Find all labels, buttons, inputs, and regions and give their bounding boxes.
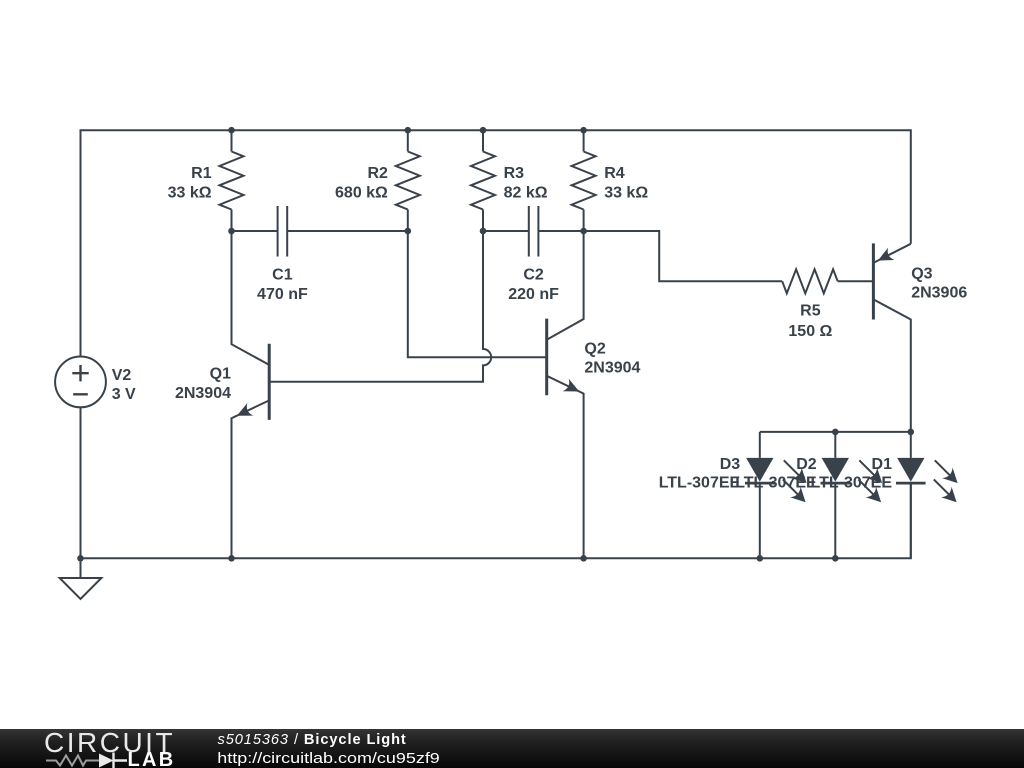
wire: R2 node down and right to Q2 base bbox=[408, 231, 547, 357]
LED D2 LTL-307EE bbox=[834, 432, 836, 458]
svg-text:LTL-307EE: LTL-307EE bbox=[811, 475, 893, 492]
resistor R2 bbox=[407, 130, 409, 151]
svg-text:V2: V2 bbox=[112, 367, 132, 384]
capacitor C2 220 nF bbox=[483, 230, 584, 232]
wire: V2 bottom to ground node bbox=[80, 407, 82, 558]
resistor R4 bbox=[583, 130, 585, 151]
wire: LED top rail bbox=[760, 431, 911, 433]
svg-text:R2: R2 bbox=[367, 165, 388, 182]
svg-text:R5: R5 bbox=[800, 303, 821, 320]
svg-text:2N3906: 2N3906 bbox=[911, 285, 967, 302]
svg-text:2N3904: 2N3904 bbox=[175, 385, 231, 402]
svg-text:D1: D1 bbox=[872, 456, 893, 473]
junction: bottom rail / D3 cathode bbox=[757, 555, 764, 562]
transistor Q1 2N3904 bbox=[232, 231, 270, 365]
ground symbol bbox=[60, 558, 102, 599]
svg-text:220 nF: 220 nF bbox=[508, 286, 559, 303]
svg-text:470 nF: 470 nF bbox=[257, 286, 308, 303]
svg-text:3 V: 3 V bbox=[112, 386, 136, 403]
transistor Q3 2N3906 (PNP) bbox=[873, 244, 910, 263]
svg-text:150 Ω: 150 Ω bbox=[788, 323, 832, 340]
svg-text:82 kΩ: 82 kΩ bbox=[504, 185, 548, 202]
junction: top rail / R3 bbox=[480, 127, 487, 134]
junction: bottom rail / Q1 emitter bbox=[228, 555, 235, 562]
svg-text:R1: R1 bbox=[191, 165, 212, 182]
resistor R1 bbox=[231, 130, 233, 151]
svg-text:R4: R4 bbox=[604, 165, 625, 182]
svg-text:Q2: Q2 bbox=[584, 341, 605, 358]
resistor R5 150 Ohm bbox=[782, 269, 838, 293]
svg-text:D3: D3 bbox=[720, 456, 741, 473]
capacitor C1 470 nF bbox=[232, 230, 408, 232]
junction: bottom rail / D2 cathode bbox=[832, 555, 839, 562]
LED D3 LTL-307EE bbox=[759, 432, 761, 458]
junction: node row / R3-C2 bbox=[480, 228, 487, 235]
svg-text:LTL-307EE: LTL-307EE bbox=[735, 475, 817, 492]
voltage source V2 3 V bbox=[55, 357, 106, 408]
junction: LED rail / D2 anode bbox=[832, 429, 839, 436]
svg-text:R3: R3 bbox=[504, 165, 525, 182]
svg-text:C1: C1 bbox=[272, 266, 293, 283]
svg-text:2N3904: 2N3904 bbox=[584, 360, 640, 377]
svg-text:33 kΩ: 33 kΩ bbox=[604, 185, 648, 202]
svg-text:LAB: LAB bbox=[128, 749, 176, 768]
logo resistor-diode glyph bbox=[46, 756, 99, 766]
svg-text:Q1: Q1 bbox=[210, 365, 231, 382]
junction: top rail / R4 bbox=[580, 127, 587, 134]
wire: bottom rail and D1 cathode riser bbox=[81, 483, 911, 558]
svg-text:D2: D2 bbox=[796, 456, 817, 473]
svg-text:C2: C2 bbox=[523, 266, 544, 283]
junction: bottom rail / Q2 emitter bbox=[580, 555, 587, 562]
svg-text:http://circuitlab.com/cu95zf9: http://circuitlab.com/cu95zf9 bbox=[217, 751, 439, 767]
resistor R3 bbox=[482, 130, 484, 151]
junction: node row / R4-C2 bbox=[580, 228, 587, 235]
wire: left rail + top rail + right rail down to Q3 emitter bbox=[81, 130, 911, 356]
wire: R3 node down (hop over Q2 base wire) and left to Q1 base bbox=[269, 231, 491, 382]
junction: top rail / R2 bbox=[405, 127, 412, 134]
svg-text:LTL-307EE: LTL-307EE bbox=[659, 475, 741, 492]
wire: R4 node right, down, to R5 bbox=[584, 231, 783, 281]
LED D1 LTL-307EE bbox=[910, 432, 912, 458]
svg-text:s5015363 / Bicycle Light: s5015363 / Bicycle Light bbox=[218, 732, 407, 748]
svg-text:Q3: Q3 bbox=[911, 266, 932, 283]
svg-text:680 kΩ: 680 kΩ bbox=[335, 185, 388, 202]
junction: node row / R2-C1 bbox=[405, 228, 412, 235]
transistor Q2 2N3904 bbox=[547, 231, 584, 340]
junction: LED rail / D1 anode (Q3 collector) bbox=[908, 429, 915, 436]
footer bar bbox=[0, 729, 1024, 768]
junction: node row / R1-C1 bbox=[228, 228, 235, 235]
junction: bottom rail / ground bbox=[77, 555, 84, 562]
junction: top rail / R1 bbox=[228, 127, 235, 134]
svg-text:33 kΩ: 33 kΩ bbox=[168, 185, 212, 202]
